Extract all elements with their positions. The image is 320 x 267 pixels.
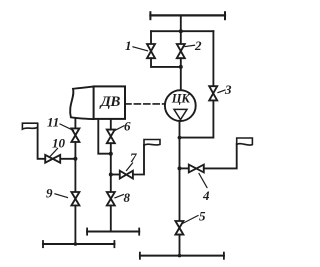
wire: valve2 bottom to compressor xyxy=(180,58,182,90)
node: valve10 tee xyxy=(73,157,77,161)
valve 5 xyxy=(175,221,183,235)
label 2 leader xyxy=(185,45,195,46)
wire: engine left drain xyxy=(74,119,76,128)
label 6 leader xyxy=(115,126,124,130)
label 3 leader xyxy=(218,90,225,93)
valve 4 xyxy=(189,165,204,173)
svg-text:7: 7 xyxy=(130,150,137,165)
svg-text:11: 11 xyxy=(47,114,59,129)
svg-text:4: 4 xyxy=(202,188,210,203)
engine DV: break-line body xyxy=(70,87,93,120)
wire: valve 7 to vent pole xyxy=(133,145,144,175)
label 1 leader xyxy=(133,47,148,51)
node: middle drain tee xyxy=(109,152,113,156)
wire: branch to valve 4 xyxy=(180,167,189,169)
wire: valve 8 to bus B xyxy=(110,206,112,232)
top supply bus xyxy=(150,12,225,19)
valve 1 xyxy=(147,44,155,58)
svg-text:6: 6 xyxy=(124,118,131,133)
wire: drop to valve 1 xyxy=(150,31,152,44)
wire: tee to valve 7 xyxy=(111,174,120,176)
wire: valve 9 to bus A xyxy=(74,206,76,245)
vent flag right xyxy=(237,138,253,145)
vent flag middle xyxy=(144,140,160,146)
wire: valve1 bottom to center xyxy=(151,58,181,67)
wire: valve 3 to main line xyxy=(180,100,214,137)
node: valve4 branch tee xyxy=(178,166,182,170)
node: valve3 return tee xyxy=(178,136,182,140)
valve 2 xyxy=(177,44,185,58)
engine DV: box U1 xyxy=(94,86,125,119)
wire: main line below compressor xyxy=(179,121,181,221)
label 4 leader xyxy=(199,174,207,188)
compressor inner triangle xyxy=(174,109,187,119)
wire: branch row horizontal xyxy=(151,30,213,32)
wire: engine middle drain xyxy=(98,119,111,154)
label 11 leader xyxy=(60,124,74,131)
bottom bus C xyxy=(140,253,224,259)
wire: valve 5 to bottom bus xyxy=(179,235,181,256)
valve 3 xyxy=(209,86,217,100)
bottom bus B xyxy=(87,229,139,235)
wire: valve 6 down through tees xyxy=(110,143,112,192)
svg-text:1: 1 xyxy=(125,38,132,53)
svg-text:5: 5 xyxy=(199,209,206,224)
wire: engine right drain xyxy=(110,119,112,130)
svg-text:3: 3 xyxy=(224,82,232,97)
label 9 leader xyxy=(55,194,68,198)
wire: valve 11 to tee xyxy=(74,142,76,192)
svg-text:10: 10 xyxy=(52,135,66,150)
vent flag left xyxy=(22,123,37,129)
wire: valve 10 to vent pole xyxy=(38,124,46,159)
label 10 leader xyxy=(51,149,58,157)
svg-text:ДВ: ДВ xyxy=(99,94,121,110)
valve 9 xyxy=(71,192,79,206)
wire: right branch down to valve 3 xyxy=(212,31,214,86)
label 7 leader xyxy=(127,163,133,171)
valve 8 xyxy=(107,192,115,206)
dashed control link xyxy=(125,103,165,105)
label 5 leader xyxy=(183,216,199,224)
bottom bus A xyxy=(43,241,114,247)
wire: valve 4 to vent pole xyxy=(204,144,237,168)
valve 6 xyxy=(107,130,115,144)
svg-text:8: 8 xyxy=(124,190,131,205)
label 8 leader xyxy=(115,195,124,198)
valve 10 xyxy=(45,155,60,163)
svg-text:2: 2 xyxy=(194,38,202,53)
valve 7 xyxy=(120,171,133,179)
wire: tee to valve 10 xyxy=(60,158,75,160)
node: valve7 tee xyxy=(109,173,113,177)
valve 11 xyxy=(71,128,79,142)
svg-text:9: 9 xyxy=(46,185,53,200)
compressor circle ЦК xyxy=(165,90,196,121)
node: branch tee xyxy=(179,29,183,33)
node: lower tee xyxy=(179,65,183,69)
svg-text:ЦК: ЦК xyxy=(171,91,192,105)
wire: top bus to branch row xyxy=(180,15,182,43)
